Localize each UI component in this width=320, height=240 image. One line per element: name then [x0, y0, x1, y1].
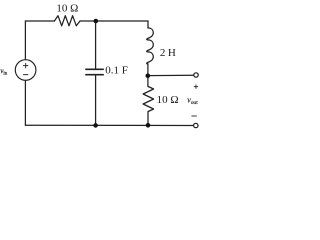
svg-text:10 Ω: 10 Ω — [157, 94, 179, 106]
svg-text:10 Ω: 10 Ω — [56, 3, 78, 15]
svg-text:2 H: 2 H — [160, 47, 176, 59]
svg-text:0.1 F: 0.1 F — [105, 65, 128, 77]
